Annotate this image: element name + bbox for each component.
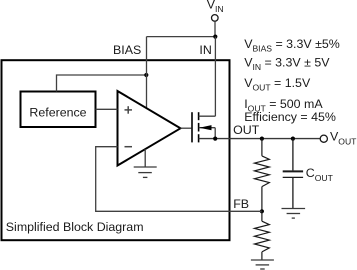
svg-text:Reference: Reference: [29, 106, 86, 120]
wire VIN branch to BIAS: [147, 36, 216, 38]
resistor R2 lower feedback: [255, 211, 270, 260]
op-amp minus input mark: [125, 146, 133, 148]
node R1 top junction: [260, 137, 264, 141]
op-amp U1 triangle: [118, 91, 181, 166]
channel segment drain: [198, 112, 200, 120]
wire IN vertical to pass FET drain: [214, 37, 216, 117]
wire BIAS vertical into op-amp: [146, 37, 148, 109]
ground under COUT: [282, 209, 306, 219]
wire body down to source node: [214, 128, 216, 139]
wire FB to op-amp minus: [96, 147, 262, 212]
op-amp plus input mark: [125, 106, 133, 114]
node VIN junction: [213, 35, 217, 39]
body arrow of Q1: [199, 127, 215, 129]
svg-text:BIAS: BIAS: [113, 43, 141, 57]
reference block U-ref: [21, 92, 96, 128]
node source junction: [213, 137, 217, 141]
ground under R2: [251, 260, 274, 269]
node BIAS junction: [144, 73, 148, 77]
channel segment body: [198, 123, 200, 132]
wire op-amp output to gate: [181, 127, 192, 129]
wire VIN stem: [214, 21, 216, 36]
outer block-diagram box: [2, 60, 230, 240]
svg-text:IN: IN: [199, 43, 211, 57]
svg-text:OUT: OUT: [233, 123, 260, 137]
terminal VOUT circle: [320, 135, 327, 142]
ground under op-amp: [134, 149, 157, 177]
channel segment source: [198, 134, 200, 142]
wire OUT net: [199, 138, 321, 140]
svg-text:Simplified Block Diagram: Simplified Block Diagram: [6, 220, 144, 234]
terminal VIN circle: [212, 15, 219, 22]
wire reference to plus input: [96, 108, 118, 110]
node COUT top junction: [291, 137, 295, 141]
capacitor COUT: [283, 139, 303, 209]
wire drain stub up to IN: [199, 115, 216, 117]
resistor R1 upper feedback: [255, 139, 270, 212]
wire reference top to BIAS rail: [57, 75, 147, 92]
svg-text:FB: FB: [233, 197, 249, 211]
svg-text:Efficiency = 45%: Efficiency = 45%: [244, 110, 336, 124]
node FB junction: [260, 209, 264, 213]
gate bar: [191, 112, 193, 142]
transistor Q1 pass PMOS: [192, 112, 199, 142]
annotation text block: [244, 37, 340, 124]
